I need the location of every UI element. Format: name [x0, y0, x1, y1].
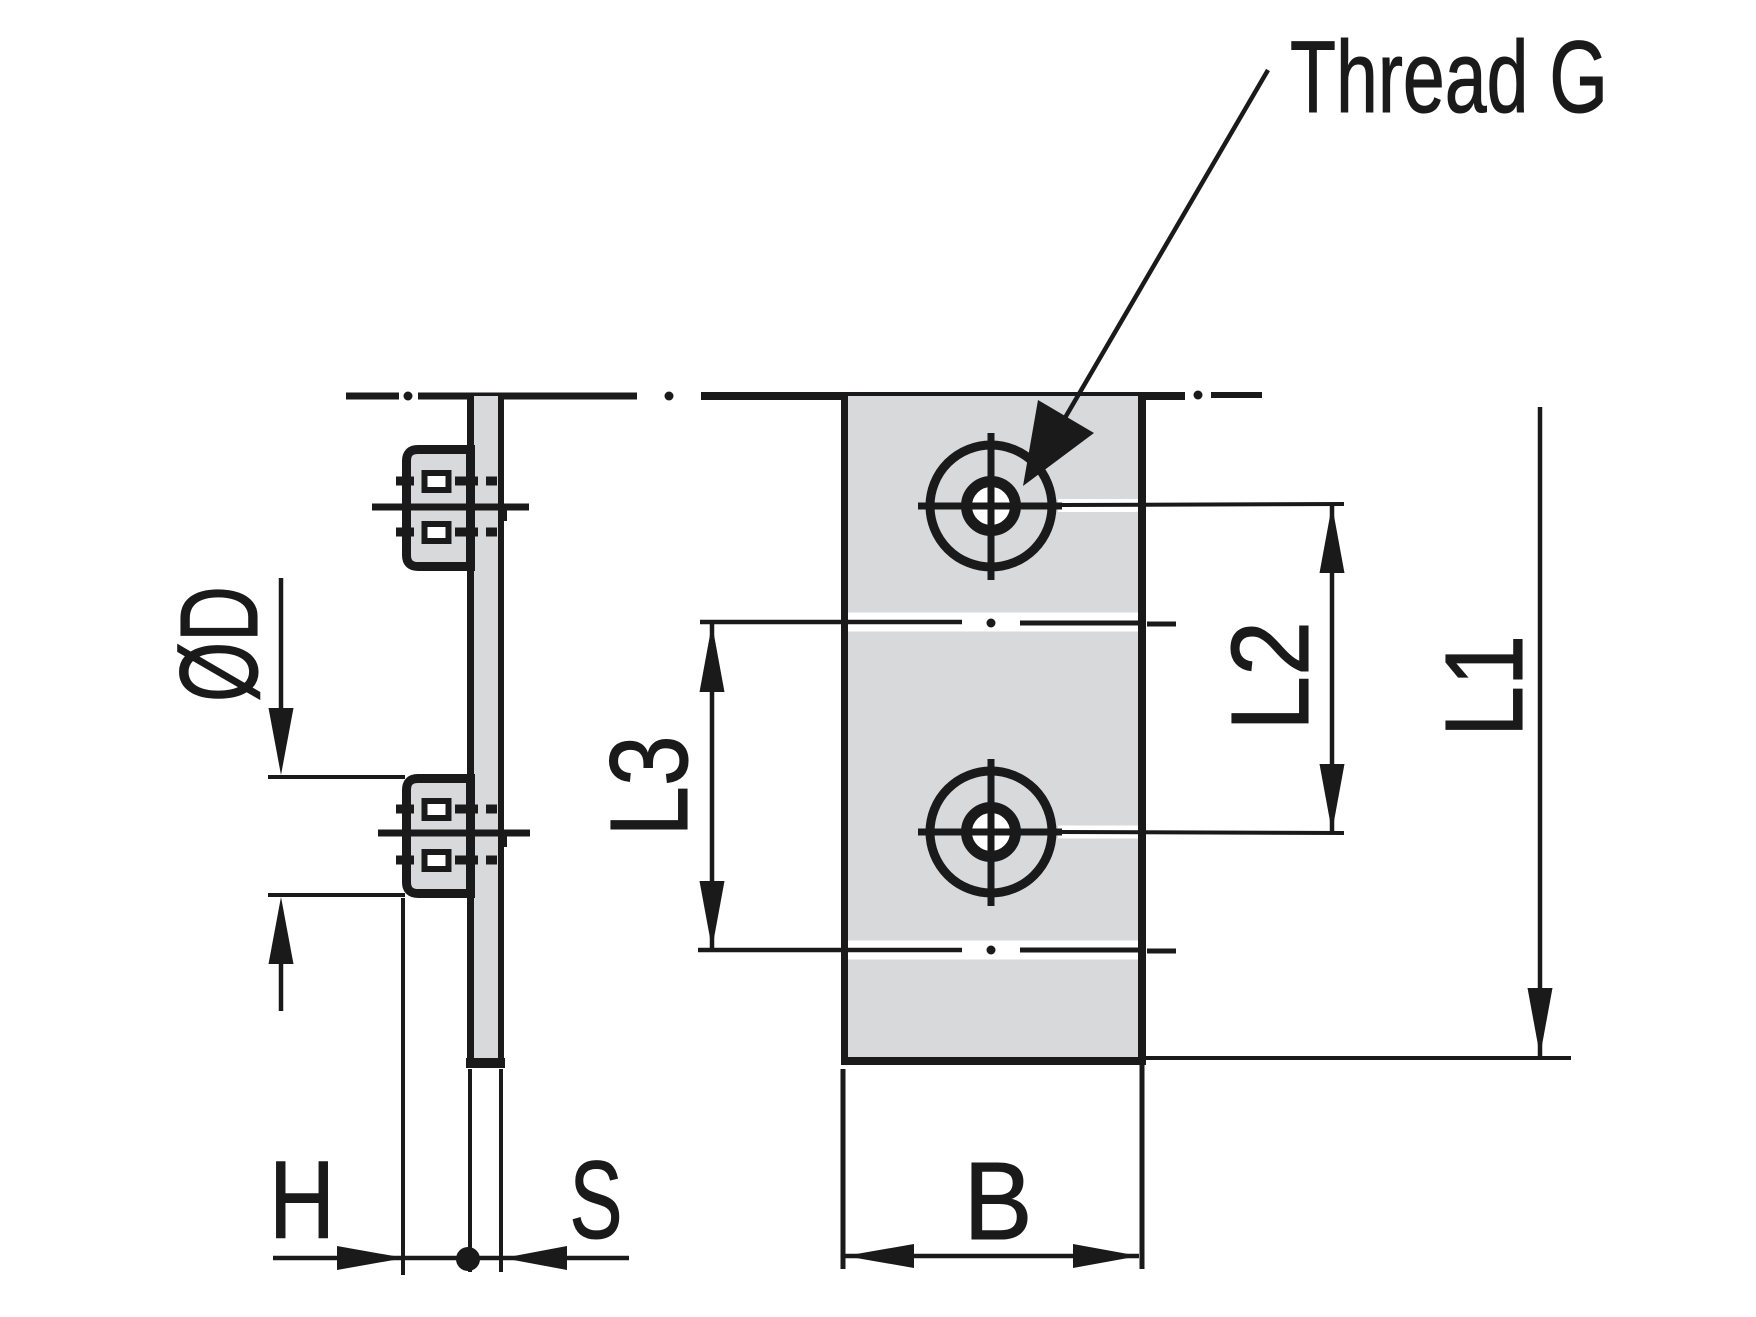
front view plate — [841, 396, 1146, 1061]
dimension L3 — [700, 622, 725, 951]
side view plate (section) — [466, 396, 505, 1064]
top dash-dot centerline — [346, 391, 1262, 401]
svg-text:L1: L1 — [1423, 635, 1546, 737]
bottom dash-dot centerline — [698, 946, 1176, 955]
top nut centerline — [372, 507, 529, 521]
middle dash-dot centerline — [700, 619, 1176, 628]
svg-text:Thread G: Thread G — [1290, 20, 1608, 134]
dimension L1 — [1142, 407, 1571, 1058]
extension line nut face for H — [401, 898, 405, 1275]
svg-text:L2: L2 — [1209, 621, 1332, 731]
shared dot H/S — [456, 1247, 480, 1271]
top weld nut (side view) — [396, 450, 497, 567]
bottom threaded hole — [918, 759, 1344, 906]
bottom weld nut (side view) — [396, 779, 497, 894]
arrow S — [503, 1246, 567, 1270]
dimension OD — [268, 578, 405, 1011]
side plate extension lines below — [470, 1069, 501, 1272]
svg-text:B: B — [964, 1140, 1033, 1263]
bottom nut centerline — [378, 833, 530, 847]
dimension L2 — [1320, 503, 1345, 834]
svg-text:S: S — [570, 1139, 623, 1262]
arrow H — [337, 1246, 405, 1270]
top threaded hole — [918, 433, 1344, 580]
dimension line H and S — [273, 1256, 629, 1261]
dimension B — [843, 1065, 1142, 1269]
svg-text:H: H — [269, 1139, 335, 1262]
svg-text:L3: L3 — [588, 736, 711, 837]
svg-text:ØD: ØD — [158, 586, 281, 702]
Thread G leader line — [1023, 70, 1268, 486]
